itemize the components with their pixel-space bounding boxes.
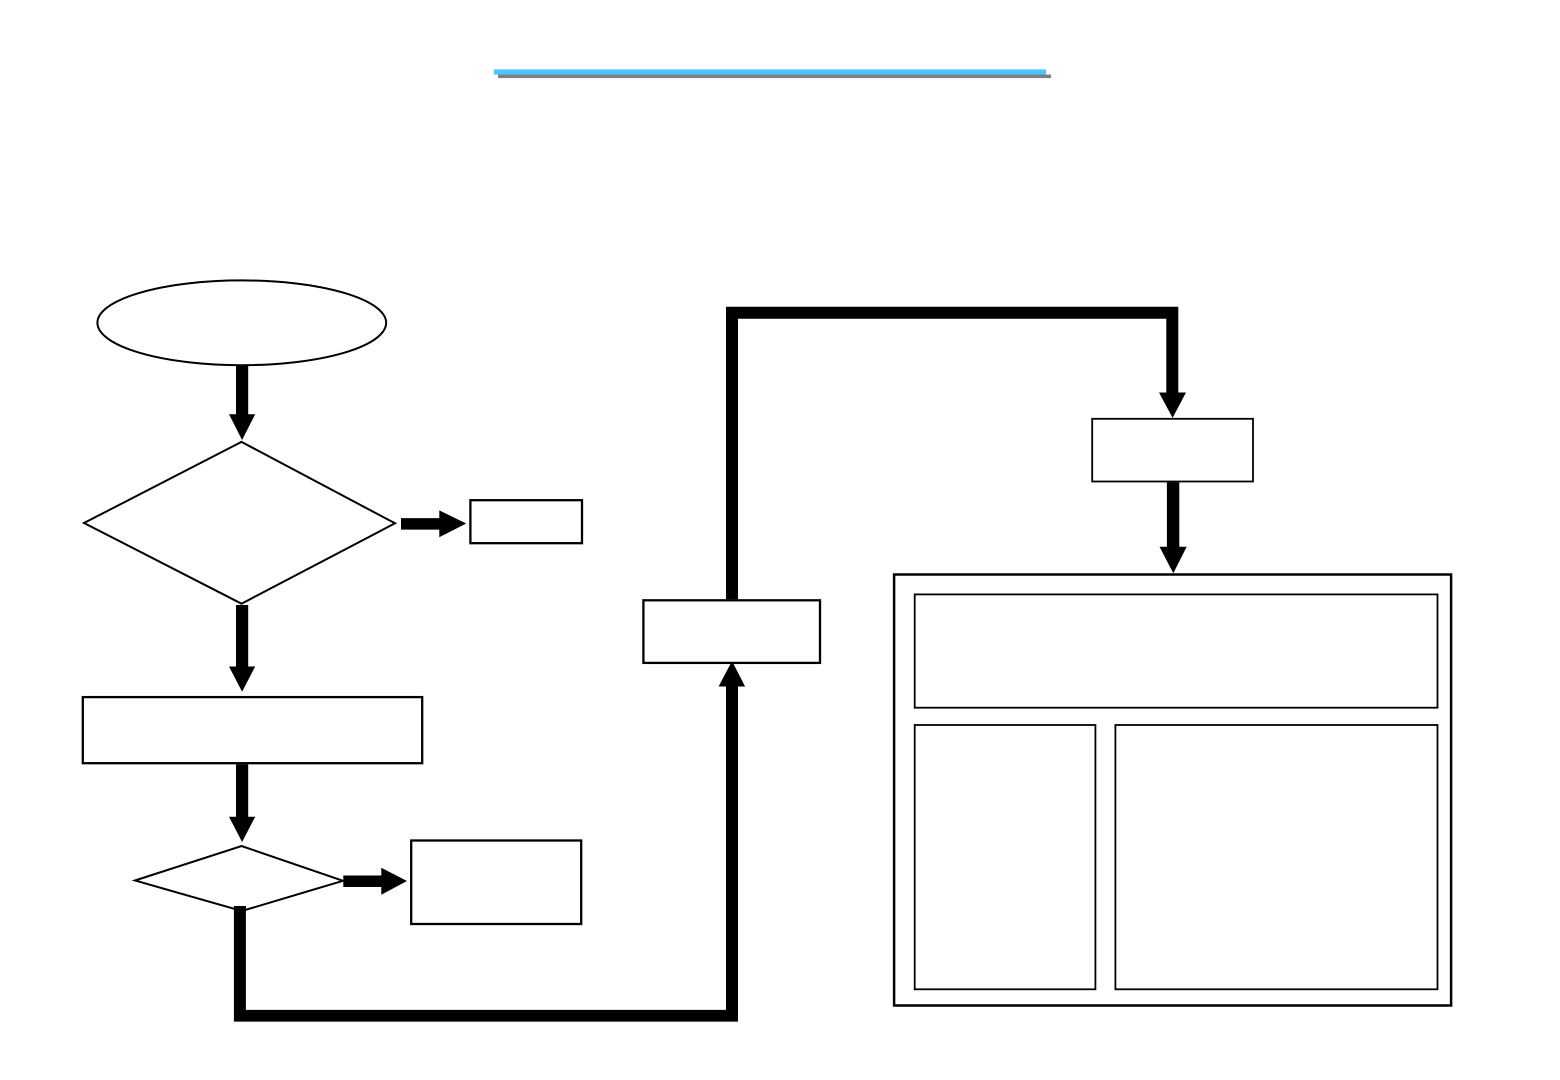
big panel: left inner box [915,725,1096,989]
process box (right of diamond) [470,500,582,543]
arrow: diamond to right box [401,510,466,537]
arrow: diamond down to process box [229,605,255,692]
big panel outer [894,575,1451,1006]
decision diamond (small) [135,846,343,911]
process box (wide) [83,697,422,763]
start ellipse [97,280,386,365]
title underline shadow [498,75,1051,79]
thick wire: middle box up, right, down into top-right box [726,307,1178,600]
arrowhead down into top-right box [1159,393,1186,418]
middle box [643,600,820,663]
top-right box [1092,419,1253,482]
big panel: right inner box [1115,725,1437,989]
arrow: small diamond to no-box [343,868,407,895]
arrow: top-right box down to big panel [1160,482,1187,573]
thick loop wire: small diamond down, right, up into middle box [234,687,738,1022]
arrow: process box down to small diamond [229,764,255,842]
decision diamond (large) [84,442,395,604]
big panel: top inner box [915,594,1438,707]
arrow: ellipse to diamond [229,366,255,440]
arrowhead up into middle box [719,661,746,687]
title underline (blue) [494,69,1046,74]
no-box [411,841,581,925]
